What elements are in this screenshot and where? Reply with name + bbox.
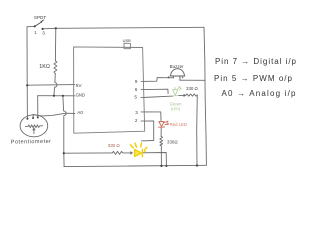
svg-text:1KΩ: 1KΩ [39, 64, 50, 70]
wire pin 6 to green LED [143, 89, 168, 93]
potentiometer RV1 [20, 115, 48, 137]
node 5V junction [26, 84, 28, 86]
node GND drop [62, 95, 64, 97]
svg-text:330 Ω: 330 Ω [186, 86, 199, 91]
svg-text:5: 5 [134, 95, 137, 100]
svg-text:Buzzer: Buzzer [170, 64, 185, 69]
svg-text:A0: A0 [77, 110, 83, 115]
wire switch common down-left [27, 26, 35, 118]
potentiometer RV1 terminals [26, 116, 38, 119]
wire 5V rail [27, 84, 75, 87]
wire yellow LED row from GND drop [64, 152, 113, 154]
LED D2 red [159, 121, 169, 127]
node red column rail [160, 165, 162, 167]
svg-text:Pin 5 → PWM o/p: Pin 5 → PWM o/p [214, 74, 293, 83]
LED D3 yellow [130, 143, 146, 156]
resistor R1 1K zigzag [54, 61, 57, 74]
wire bottom rail [64, 165, 206, 166]
node yellow row [63, 152, 65, 154]
switch S1 SPDT contacts [34, 21, 44, 30]
wire pin 3 to red LED [143, 112, 161, 121]
pin ticks right edge [141, 81, 146, 121]
svg-text:Green: Green [170, 101, 183, 106]
svg-text:SPDT: SPDT [34, 15, 46, 20]
wire top rail to resistor R1 [54, 28, 56, 61]
wire GND drop with hop over A0 wire [63, 96, 66, 167]
wire pin 2 elbow [142, 121, 154, 141]
svg-text:(LED): (LED) [171, 107, 180, 111]
svg-text:330 Ω: 330 Ω [108, 143, 121, 148]
buzzer BZ1 [168, 69, 185, 80]
svg-text:GND: GND [76, 92, 86, 97]
resistor R3 330 zigzag red column [160, 136, 163, 146]
wire A0 from potentiometer wiper [33, 113, 75, 118]
wire green resistor to bottom rail [196, 95, 199, 165]
USB connector box [124, 43, 130, 49]
wire GND rail [38, 95, 75, 97]
node green column rail [196, 164, 198, 166]
svg-text:330Ω: 330Ω [167, 140, 178, 145]
wire red LED to resistor R3 [160, 128, 162, 137]
note pin function annotations [214, 57, 297, 98]
buzzer BZ1 polarity dot [182, 77, 183, 78]
LED D1 green [172, 87, 181, 96]
svg-text:A0 → Analog i/p: A0 → Analog i/p [222, 89, 297, 98]
svg-text:2: 2 [135, 118, 138, 123]
wire yellow LED to bottom rail [143, 153, 167, 167]
svg-text:Potentiometer: Potentiometer [11, 139, 52, 146]
wire R1 bottom with hop over 5V rail [54, 74, 57, 96]
svg-text:Pin 7 → Digital i/p: Pin 7 → Digital i/p [215, 57, 297, 66]
svg-text:6: 6 [135, 87, 138, 92]
wire pin 9 to buzzer [143, 78, 174, 82]
wire arrow to yellow LED [123, 152, 132, 154]
svg-text:Red LED: Red LED [170, 122, 187, 127]
wire buzzer right leg to right rail [180, 79, 205, 81]
node yellow column rail [165, 165, 167, 167]
wire GND rail down to potentiometer right terminal [37, 96, 39, 118]
node GND R1 [53, 95, 55, 97]
svg-text:3: 3 [135, 110, 138, 115]
switch S1 lever [35, 20, 44, 26]
resistor R4 330 zigzag yellow row [112, 151, 123, 154]
IC U1 pin labels 5V GND A0 9 6 5 3 2 [76, 79, 139, 123]
wire pin 5 [143, 96, 173, 97]
node top rail junction [55, 27, 57, 29]
svg-text:USB: USB [123, 38, 132, 43]
wire right rail [204, 27, 206, 165]
svg-text:9: 9 [135, 79, 138, 84]
IC U1 Arduino body [74, 43, 146, 133]
wire R3 to bottom rail [160, 146, 162, 166]
resistor R2 330 zigzag green row [186, 94, 197, 96]
wire arrow green LED to resistor R2 [179, 94, 186, 96]
svg-text:5V: 5V [76, 83, 83, 88]
wire top rail [43, 27, 204, 29]
